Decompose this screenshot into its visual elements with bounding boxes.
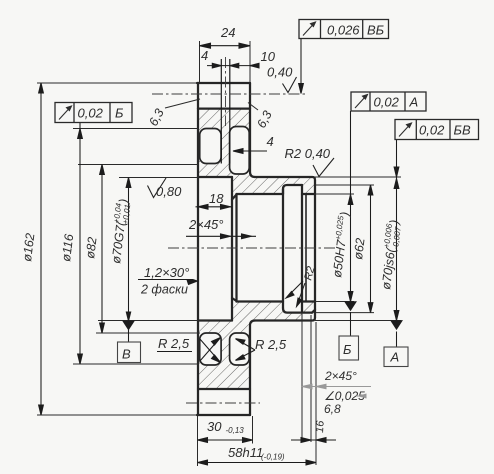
svg-text:4: 4 xyxy=(267,134,274,149)
svg-text:Б: Б xyxy=(343,342,352,357)
svg-text:2×45°: 2×45° xyxy=(188,217,223,232)
svg-text:30: 30 xyxy=(207,419,222,434)
svg-text:0,02: 0,02 xyxy=(419,123,445,138)
svg-text:4: 4 xyxy=(201,48,208,63)
svg-text:БВ: БВ xyxy=(454,123,471,138)
svg-text:1,2×30°: 1,2×30° xyxy=(144,265,189,280)
svg-text:0,02: 0,02 xyxy=(374,95,400,110)
svg-text:ø62: ø62 xyxy=(351,237,368,260)
svg-text:0,02: 0,02 xyxy=(78,106,104,121)
svg-text:6,8: 6,8 xyxy=(324,402,341,416)
svg-text:2 фаски: 2 фаски xyxy=(140,283,188,297)
svg-text:В: В xyxy=(122,347,131,362)
svg-text:58h11: 58h11 xyxy=(228,445,263,460)
svg-text:Б: Б xyxy=(115,106,124,121)
svg-text:0,80: 0,80 xyxy=(156,184,182,199)
svg-text:10: 10 xyxy=(261,49,276,64)
svg-text:16: 16 xyxy=(314,419,327,433)
svg-text:А: А xyxy=(409,95,419,110)
svg-text:(-0,19): (-0,19) xyxy=(261,453,285,462)
svg-text:0,026: 0,026 xyxy=(327,23,360,38)
svg-text:R 2,5: R 2,5 xyxy=(158,336,190,351)
svg-text:ø82: ø82 xyxy=(83,236,100,259)
svg-text:R 2,5: R 2,5 xyxy=(255,337,287,352)
svg-text:18: 18 xyxy=(209,191,224,206)
svg-text:ВБ: ВБ xyxy=(367,23,385,38)
svg-text:0,40: 0,40 xyxy=(267,65,293,80)
svg-text:24: 24 xyxy=(220,25,235,40)
svg-text:А: А xyxy=(390,350,400,365)
svg-text:R2 0,40: R2 0,40 xyxy=(285,146,331,161)
svg-text:-0,13: -0,13 xyxy=(226,426,245,435)
svg-text:2×45°: 2×45° xyxy=(324,369,357,383)
